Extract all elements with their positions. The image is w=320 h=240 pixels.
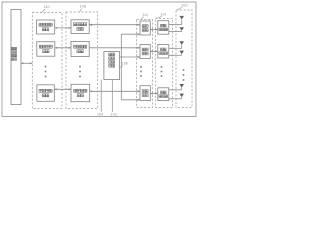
svg-text:106: 106 [122, 62, 128, 66]
svg-text:102: 102 [111, 113, 117, 117]
svg-text:114: 114 [160, 13, 166, 17]
svg-text:104: 104 [97, 113, 103, 117]
svg-text:100: 100 [181, 3, 188, 8]
svg-text:112: 112 [142, 13, 148, 17]
svg-text:110: 110 [44, 4, 51, 9]
svg-text:108: 108 [80, 4, 87, 9]
